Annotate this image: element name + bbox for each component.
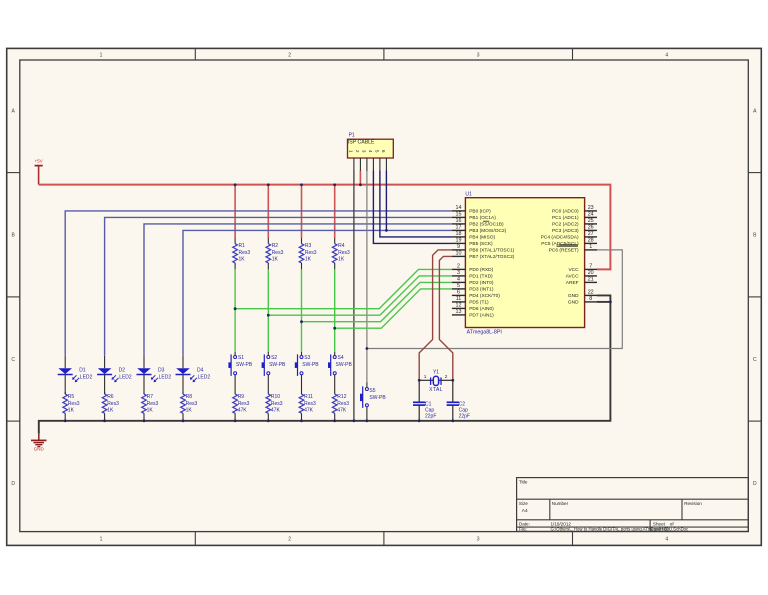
svg-text:47K: 47K [238, 408, 248, 414]
svg-text:PB2 (SS/OC1B): PB2 (SS/OC1B) [469, 222, 504, 228]
wire +5V to R3 [301, 185, 303, 238]
resistor R5 [64, 392, 66, 394]
svg-text:Res3: Res3 [272, 250, 284, 256]
pin 14 PB0 (ICP) [452, 210, 466, 212]
svg-text:23: 23 [588, 205, 594, 211]
svg-text:ATmega8L-8PI: ATmega8L-8PI [467, 329, 502, 335]
svg-text:5: 5 [457, 283, 460, 289]
svg-text:10: 10 [456, 251, 462, 257]
zone ticks [194, 48, 196, 60]
pin 10 PB7 (XTAL2/TOSC2) [452, 255, 466, 257]
wire PB0 to D1 [65, 211, 452, 356]
svg-text:PB5 (SCK): PB5 (SCK) [469, 241, 493, 247]
svg-text:4: 4 [665, 52, 668, 58]
svg-text:1K: 1K [186, 408, 193, 414]
junction dots switch nets [234, 307, 237, 310]
connector P1 ISP CABLE body [348, 139, 394, 158]
junction dot RESET S5 [366, 347, 369, 350]
svg-text:1: 1 [100, 537, 103, 543]
wire +5V to R4 [334, 185, 336, 238]
svg-text:R1: R1 [239, 243, 246, 249]
svg-text:LED2: LED2 [119, 375, 132, 381]
pin 2 PD0 (RXD) [452, 268, 466, 270]
svg-text:A4: A4 [522, 508, 528, 514]
svg-text:4: 4 [368, 150, 373, 153]
svg-text:17: 17 [456, 225, 462, 231]
svg-text:1: 1 [589, 244, 592, 250]
svg-text:+5V: +5V [34, 159, 43, 164]
switch S2 SW-PB [267, 352, 269, 356]
junction dots GND rail [64, 419, 67, 422]
diode D2 LED2 [104, 356, 106, 368]
resistor R7 [143, 392, 145, 394]
svg-text:S5: S5 [369, 388, 375, 394]
wire GND pin8 [597, 301, 610, 303]
wire PB3 to D4 [183, 230, 452, 355]
pin 23 PC0 (ADC0) [584, 210, 597, 212]
svg-text:Title: Title [519, 480, 528, 485]
svg-text:Res3: Res3 [338, 250, 350, 256]
svg-text:PB7 (XTAL2/TOSC2): PB7 (XTAL2/TOSC2) [469, 254, 515, 260]
svg-text:D3: D3 [158, 368, 165, 374]
wire +5V to R2 [267, 185, 269, 238]
wire RESET loop PC6 [367, 250, 622, 349]
resistor R11 [301, 392, 303, 394]
svg-text:1K: 1K [68, 408, 75, 414]
title block [517, 478, 749, 532]
svg-text:Drawn By:: Drawn By: [651, 526, 671, 531]
svg-text:Res3: Res3 [68, 401, 80, 407]
svg-text:1K: 1K [338, 256, 345, 262]
svg-text:U1: U1 [465, 191, 472, 197]
svg-text:PD4 (XCK/T0): PD4 (XCK/T0) [469, 293, 500, 299]
svg-text:1K: 1K [147, 408, 154, 414]
pin 27 PC4 (ADC4/SDA) [584, 236, 597, 238]
switch S1 SW-PB [234, 352, 236, 356]
svg-text:LED2: LED2 [198, 375, 211, 381]
svg-text:21: 21 [588, 277, 594, 283]
wire +5V rail to VCC [39, 185, 611, 270]
svg-text:19: 19 [456, 238, 462, 244]
capacitor C1 [418, 380, 420, 402]
svg-text:R2: R2 [272, 243, 279, 249]
svg-text:D4: D4 [197, 368, 204, 374]
diode D4 LED2 [182, 356, 184, 368]
svg-text:47K: 47K [337, 408, 347, 414]
svg-text:1K: 1K [239, 256, 246, 262]
svg-text:1: 1 [424, 374, 427, 380]
svg-text:18: 18 [456, 231, 462, 237]
svg-text:PC2 (ADC2): PC2 (ADC2) [552, 222, 579, 228]
svg-text:PC0 (ADC0): PC0 (ADC0) [552, 209, 579, 215]
resistor R1 [234, 238, 236, 244]
svg-text:1K: 1K [272, 256, 279, 262]
wire S1 to PD0 [235, 269, 452, 308]
capacitor C2 [452, 380, 454, 402]
wire PB6 to Y1 pin1 [419, 250, 452, 380]
pin 21 AREF [584, 281, 597, 283]
svg-text:R12: R12 [337, 394, 346, 400]
wire ISP pin2 to +5V rail [359, 171, 361, 185]
svg-text:4: 4 [665, 537, 668, 543]
svg-text:ISP CABLE: ISP CABLE [348, 139, 375, 145]
svg-text:15: 15 [456, 212, 462, 218]
wire R1 to S1 [234, 269, 236, 352]
svg-text:D: D [11, 481, 15, 487]
svg-text:PC1 (ADC1): PC1 (ADC1) [552, 215, 579, 221]
pin 28 PC5 (ADC5/SCL) [584, 242, 597, 244]
svg-text:13: 13 [456, 309, 462, 315]
wire +5V to R1 [234, 185, 236, 238]
svg-text:2: 2 [288, 537, 291, 543]
svg-text:2: 2 [355, 150, 360, 153]
svg-text:SW-PB: SW-PB [236, 362, 253, 368]
svg-text:4: 4 [457, 277, 460, 283]
pin 5 PD3 (INT1) [452, 288, 466, 290]
resistor R3 [301, 238, 303, 244]
svg-text:27: 27 [588, 231, 594, 237]
svg-text:3: 3 [477, 52, 480, 58]
svg-text:R3: R3 [305, 243, 312, 249]
svg-text:PB3 (MOSI/OC2): PB3 (MOSI/OC2) [469, 228, 506, 234]
svg-text:3: 3 [362, 150, 367, 153]
pin 16 PB2 (SS/OC1B) [452, 223, 466, 225]
svg-text:LED2: LED2 [80, 375, 93, 381]
svg-text:6: 6 [381, 150, 386, 153]
resistor R10 [267, 392, 269, 394]
svg-text:PD2 (INT0): PD2 (INT0) [469, 280, 494, 286]
wire PB7 to Y1 pin2 [439, 256, 452, 380]
svg-text:PC6 (RESET): PC6 (RESET) [549, 248, 579, 254]
svg-text:C: C [11, 357, 15, 363]
svg-text:SW-PB: SW-PB [269, 362, 286, 368]
wire R2 to S2 [267, 269, 269, 352]
resistor R8 [182, 392, 184, 394]
svg-text:PD0 (RXD): PD0 (RXD) [469, 267, 493, 273]
svg-text:R9: R9 [238, 394, 245, 400]
svg-text:Revision: Revision [684, 501, 702, 506]
pin 25 PC2 (ADC2) [584, 223, 597, 225]
svg-text:R8: R8 [186, 394, 193, 400]
pin 22 GND [584, 294, 597, 296]
junction dots crystal [418, 379, 421, 382]
svg-text:12: 12 [456, 303, 462, 309]
svg-text:S2: S2 [271, 355, 277, 361]
pin 4 PD2 (INT0) [452, 281, 466, 283]
svg-text:File:: File: [519, 526, 527, 531]
svg-text:PD5 (T1): PD5 (T1) [469, 300, 489, 306]
overline RESET on PC6 [557, 245, 578, 247]
pin 13 PD7 (AIN1) [452, 314, 466, 316]
wire R4 to S4 [334, 269, 336, 352]
svg-text:PD3 (INT1): PD3 (INT1) [469, 287, 494, 293]
overline SS on PB2 [483, 220, 489, 222]
svg-text:Size: Size [519, 501, 528, 506]
svg-text:Res3: Res3 [304, 401, 316, 407]
svg-text:25: 25 [588, 218, 594, 224]
svg-text:GND: GND [568, 293, 579, 299]
svg-text:47K: 47K [271, 408, 281, 414]
svg-text:PB4 (MISO): PB4 (MISO) [469, 235, 495, 241]
junction dots +5V rail [234, 183, 237, 186]
junction dot GND pins [609, 301, 612, 304]
svg-text:22pF: 22pF [425, 414, 436, 420]
svg-text:S1: S1 [238, 355, 244, 361]
svg-text:P1: P1 [349, 132, 355, 138]
svg-text:PD7 (AIN1): PD7 (AIN1) [469, 313, 494, 319]
pin 3 PD1 (TXD) [452, 275, 466, 277]
diode D3 LED2 [143, 356, 145, 368]
svg-text:SW-PB: SW-PB [369, 395, 386, 401]
svg-text:R6: R6 [107, 394, 114, 400]
svg-text:PB1 (OC1A): PB1 (OC1A) [469, 215, 496, 221]
svg-text:14: 14 [456, 205, 462, 211]
svg-text:S3: S3 [304, 355, 310, 361]
switch S3 SW-PB [301, 352, 303, 356]
svg-text:Res3: Res3 [238, 401, 250, 407]
pin 11 PD5 (T1) [452, 301, 466, 303]
svg-text:16: 16 [456, 218, 462, 224]
ground GND symbol [38, 434, 40, 441]
wire S2 to PD1 [268, 276, 452, 315]
pin 9 PB6 (XTAL1/TOSC1) [452, 249, 466, 251]
svg-text:PB6 (XTAL1/TOSC1): PB6 (XTAL1/TOSC1) [469, 248, 515, 254]
+5V power symbol [35, 165, 43, 167]
svg-text:R11: R11 [304, 394, 313, 400]
svg-text:28: 28 [588, 238, 594, 244]
svg-text:1: 1 [349, 150, 354, 153]
svg-text:1K: 1K [107, 408, 114, 414]
svg-text:PD1 (TXD): PD1 (TXD) [469, 274, 493, 280]
wire ISP pin5 MISO to PB4 [380, 171, 452, 237]
svg-text:47K: 47K [304, 408, 314, 414]
svg-text:SW-PB: SW-PB [336, 362, 353, 368]
pin 24 PC1 (ADC1) [584, 216, 597, 218]
svg-text:AVCC: AVCC [566, 274, 580, 280]
junction dot MOSI PB3 [385, 229, 388, 232]
svg-text:AREF: AREF [566, 280, 579, 286]
diode D1 LED2 [64, 356, 66, 368]
svg-text:C1: C1 [425, 401, 432, 407]
svg-text:Res3: Res3 [337, 401, 349, 407]
svg-text:Res3: Res3 [305, 250, 317, 256]
svg-text:PB0 (ICP): PB0 (ICP) [469, 209, 491, 215]
svg-text:GND: GND [34, 447, 45, 452]
resistor R12 [334, 392, 336, 394]
wire ISP pin1 to GND rail [353, 171, 355, 421]
svg-text:XTAL: XTAL [429, 387, 443, 393]
svg-text:R4: R4 [338, 243, 345, 249]
svg-text:Res3: Res3 [107, 401, 119, 407]
svg-text:6: 6 [457, 290, 460, 296]
svg-text:R5: R5 [68, 394, 75, 400]
svg-text:7: 7 [589, 264, 592, 270]
svg-text:S4: S4 [338, 355, 344, 361]
switch S5 SW-PB [366, 382, 368, 387]
wire ISP pin3 RESET to S5 [366, 171, 368, 383]
svg-text:1K: 1K [305, 256, 312, 262]
pin 20 AVCC [584, 275, 597, 277]
svg-text:Y1: Y1 [433, 370, 439, 376]
svg-text:D: D [753, 481, 757, 487]
pin 19 PB5 (SCK) [452, 242, 466, 244]
wire ISP pin4 SCK to PB5 [373, 171, 452, 244]
svg-text:2: 2 [457, 264, 460, 270]
wire S4 to PD3 [335, 289, 452, 328]
svg-text:C: C [753, 357, 757, 363]
op-amp U1 body [465, 198, 584, 328]
svg-text:LED2: LED2 [159, 375, 172, 381]
wire ISP pin6 MOSI to PB3 [385, 171, 387, 231]
svg-text:R7: R7 [147, 394, 154, 400]
wire S3 to PD2 [302, 282, 452, 321]
pin 18 PB4 (MISO) [452, 236, 466, 238]
pin 15 PB1 (OC1A) [452, 216, 466, 218]
wire PB2 to D3 [144, 224, 452, 356]
svg-text:PC4 (ADC4/SDA): PC4 (ADC4/SDA) [541, 235, 579, 241]
crystal Y1 XTAL [419, 379, 433, 381]
svg-text:Number: Number [552, 501, 569, 506]
svg-text:11: 11 [456, 296, 462, 302]
pin 8 GND [584, 301, 597, 303]
svg-text:SW-PB: SW-PB [302, 362, 319, 368]
svg-text:5: 5 [375, 150, 380, 153]
svg-text:D1: D1 [79, 368, 86, 374]
svg-text:22: 22 [588, 290, 594, 296]
switch S4 SW-PB [334, 352, 336, 356]
inner border [20, 60, 749, 532]
resistor R6 [104, 392, 106, 394]
pin 1 PC6 (RESET) [584, 249, 597, 251]
svg-text:2: 2 [288, 52, 291, 58]
resistor R2 [267, 238, 269, 244]
svg-text:20: 20 [588, 270, 594, 276]
svg-text:C2: C2 [459, 401, 466, 407]
svg-text:3: 3 [477, 537, 480, 543]
pin 26 PC3 (ADC3) [584, 229, 597, 231]
pin 12 PD6 (AIN0) [452, 307, 466, 309]
pin 7 VCC [584, 268, 597, 270]
svg-text:9: 9 [457, 244, 460, 250]
overline SCL on PC5 [560, 244, 578, 246]
svg-text:GND: GND [568, 300, 579, 306]
svg-text:3: 3 [457, 270, 460, 276]
svg-text:PD6 (AIN0): PD6 (AIN0) [469, 306, 494, 312]
svg-text:D2: D2 [119, 368, 126, 374]
svg-text:Res3: Res3 [271, 401, 283, 407]
svg-text:2: 2 [445, 374, 448, 380]
svg-text:VCC: VCC [568, 267, 579, 273]
svg-text:PC3 (ADC3): PC3 (ADC3) [552, 228, 579, 234]
resistor R4 [334, 238, 336, 244]
svg-text:Res3: Res3 [239, 250, 251, 256]
wire PB1 to D2 [105, 217, 452, 355]
svg-text:22pF: 22pF [459, 414, 470, 420]
svg-text:Res3: Res3 [147, 401, 159, 407]
svg-text:26: 26 [588, 225, 594, 231]
svg-text:1: 1 [100, 52, 103, 58]
pin 17 PB3 (MOSI/OC2) [452, 229, 466, 231]
svg-text:R10: R10 [271, 394, 280, 400]
wire R3 to S3 [301, 269, 303, 352]
pin 6 PD4 (XCK/T0) [452, 294, 466, 296]
resistor R9 [234, 392, 236, 394]
svg-text:8: 8 [589, 296, 592, 302]
svg-text:24: 24 [588, 212, 594, 218]
svg-text:Res3: Res3 [186, 401, 198, 407]
wire GND rail [39, 295, 611, 433]
